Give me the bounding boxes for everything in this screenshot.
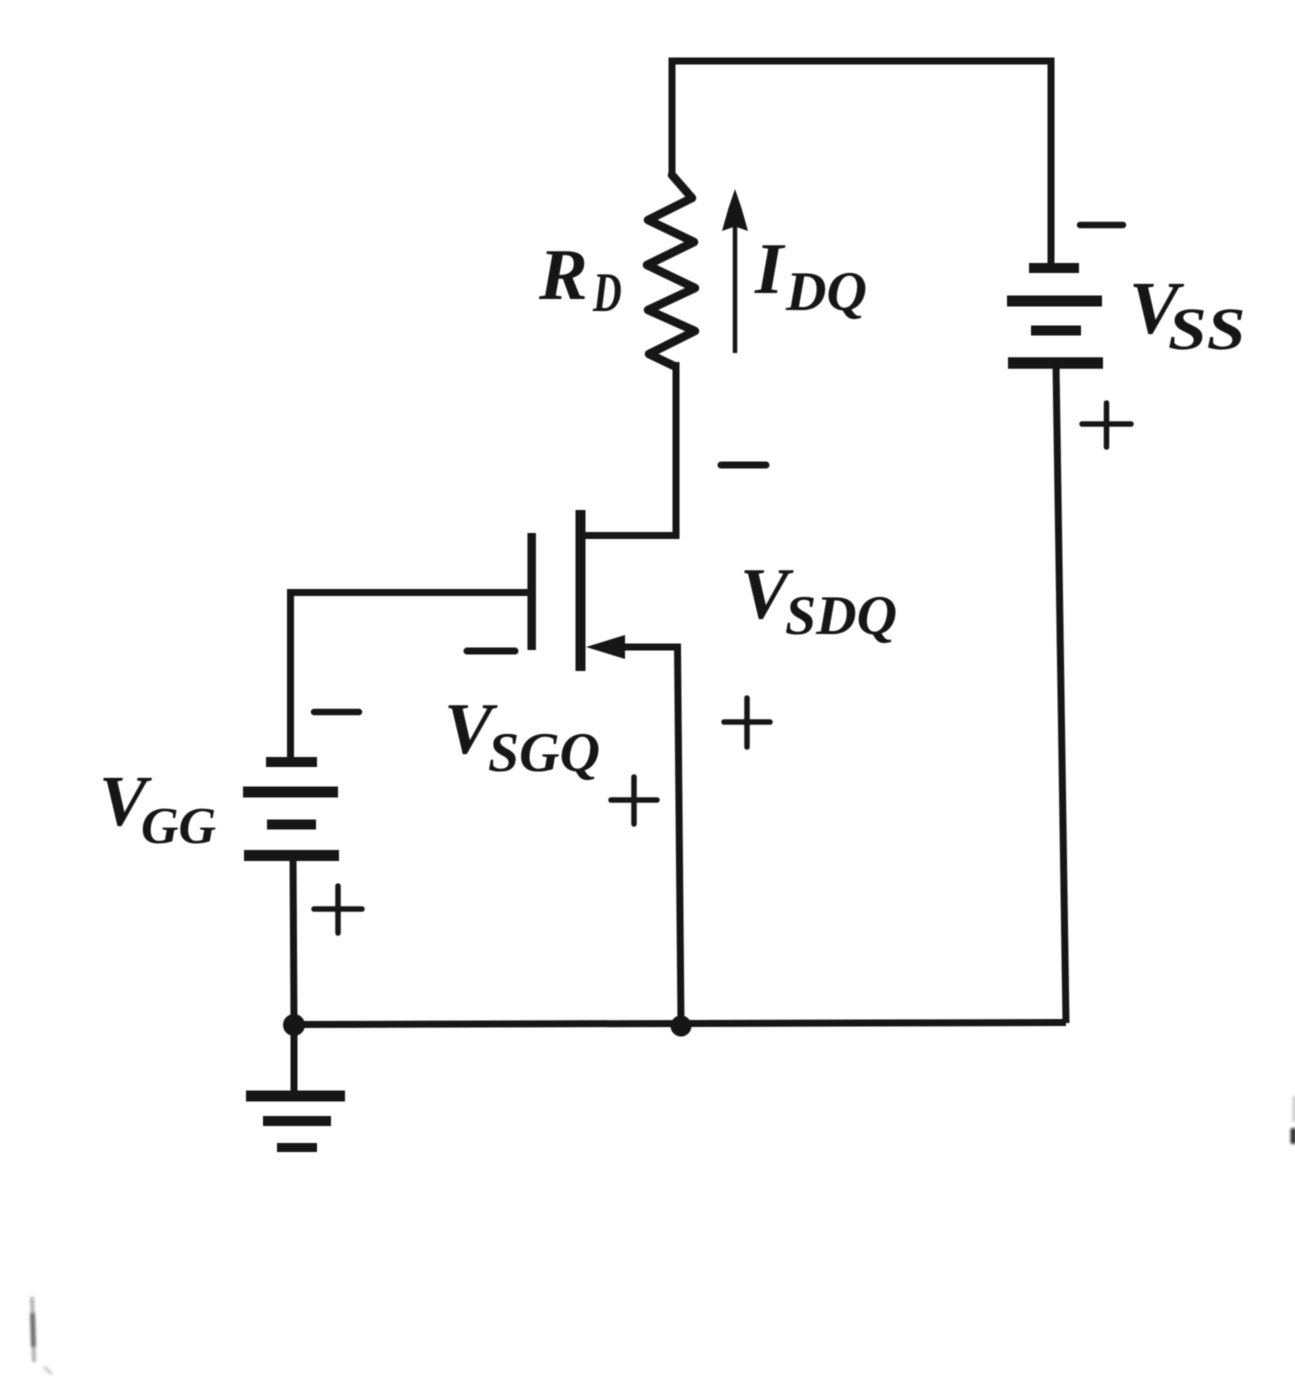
plus sign of V_SGQ (611, 777, 657, 824)
svg-text:I: I (754, 228, 786, 309)
current arrow I_DQ shaft (733, 215, 738, 353)
ground bar 2 (263, 1116, 331, 1126)
wire bottom rail (294, 1023, 1066, 1025)
current arrow I_DQ head (722, 189, 748, 231)
transistor Q1 source arrowhead (586, 635, 625, 659)
svg-text:R: R (538, 234, 588, 315)
svg-text:GG: GG (141, 798, 216, 855)
svg-text:DQ: DQ (785, 261, 867, 323)
plus sign of V_SDQ (724, 698, 770, 747)
plus sign of V_SS (1082, 403, 1131, 447)
ground bar 3 (277, 1143, 317, 1152)
scan mark right edge (1291, 1096, 1295, 1144)
battery V_SS plate 4 (long, positive) (1008, 357, 1103, 369)
minus sign of V_SS (1080, 222, 1123, 229)
battery V_GG plate 3 (short) (267, 820, 316, 830)
wire gate lead to left rail (291, 593, 529, 759)
resistor R_D (647, 175, 695, 366)
battery V_SS plate 3 (short) (1031, 326, 1081, 336)
battery V_GG plate 1 (short, negative) (266, 757, 317, 767)
battery V_SS plate 2 (long) (1007, 296, 1102, 307)
battery V_GG plate 4 (long, positive) (244, 850, 339, 861)
plus sign of V_GG (314, 886, 362, 933)
transistor Q1 channel bar (576, 510, 586, 671)
transistor Q1 gate bar (527, 533, 536, 650)
minus sign of V_SDQ (721, 462, 766, 469)
svg-text:SDQ: SDQ (785, 585, 897, 647)
label R_D subscript D (593, 274, 621, 311)
wire resistor bottom to drain corner (584, 362, 676, 536)
minus sign of V_GG (314, 709, 359, 716)
wire V_SS to bottom-right corner (1056, 364, 1066, 1023)
transistor Q1 source lead wire down to bottom node (612, 647, 681, 1024)
node B junction dot (source/bottom rail) (671, 1016, 692, 1037)
ground bar 1 (246, 1091, 345, 1102)
wire ground stem (291, 1025, 298, 1093)
minus sign of V_SGQ (467, 648, 515, 655)
svg-text:SGQ: SGQ (488, 722, 600, 784)
wire V_GG to ground node (293, 856, 294, 1025)
battery V_GG plate 2 (long) (243, 787, 338, 798)
svg-text:SS: SS (1168, 296, 1245, 362)
battery V_SS plate 1 (short, negative) (1029, 263, 1079, 273)
wire top rail (drain branch up, across, down to V_SS) (672, 61, 1051, 268)
scan smudge left bottom edge (32, 1297, 52, 1374)
node A junction dot (ground node) (283, 1014, 305, 1036)
